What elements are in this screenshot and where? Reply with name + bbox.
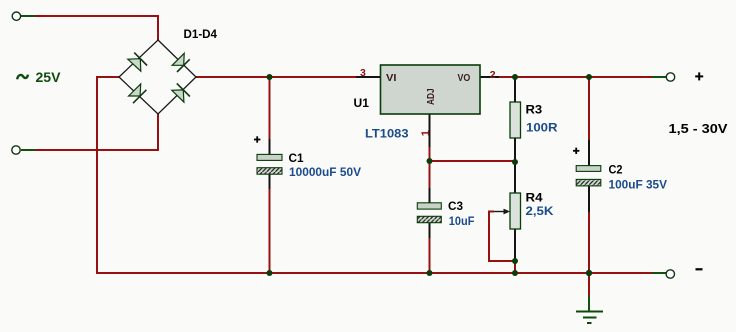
wire: green lead to positive output terminal	[652, 76, 666, 78]
wire: negative rail from bridge left corner down and along bottom	[97, 77, 652, 273]
wire: C1 bottom pin lead	[269, 174, 271, 189]
capacitor C1 body	[257, 154, 282, 174]
C2 polarity plus	[573, 148, 579, 154]
svg-text:D1-D4: D1-D4	[184, 27, 218, 41]
svg-text:C2: C2	[609, 162, 623, 176]
svg-text:100R: 100R	[526, 121, 558, 135]
wire: R4 wiper wire	[489, 212, 515, 262]
capacitor C3 body	[417, 203, 441, 223]
label output plus	[695, 72, 703, 80]
terminal: AC input top	[12, 12, 20, 20]
wire: R3 top pin lead	[514, 77, 516, 102]
R4 wiper arrow	[494, 209, 510, 215]
capacitor C2 body	[576, 166, 601, 186]
op-amp/regulator U1 body	[381, 65, 481, 114]
svg-text:VO: VO	[458, 73, 471, 84]
junction: ADJ node	[427, 158, 433, 164]
wire: R4 top pin lead	[514, 162, 516, 193]
svg-text:C1: C1	[289, 151, 304, 165]
junction: bottom rail at C3	[427, 270, 433, 276]
wire: C1 top pin lead	[269, 139, 271, 155]
wire: green lead to negative output terminal	[652, 272, 666, 274]
wire: C3 branch lower	[429, 238, 431, 273]
potentiometer R4 body	[510, 193, 521, 229]
wire: top rail from VO to positive output	[499, 76, 652, 78]
junction: bottom rail at C1	[267, 270, 273, 276]
wire: top rail from bridge right corner to U1 VI	[196, 76, 356, 78]
wire: R4 bottom pin lead	[514, 229, 516, 261]
wire: C3 top pin lead	[429, 188, 431, 203]
wire: ADJ to node	[429, 147, 431, 161]
terminal: output positive	[666, 73, 674, 81]
wire: AC bottom from terminal to bridge bottom corner	[35, 114, 158, 150]
diode bridge frame D1-D4	[119, 40, 196, 114]
resistor R3 body	[510, 102, 521, 138]
diode D1 (upper-left, anode left corner, cathode top corner)	[128, 53, 147, 72]
terminal: AC input bottom	[12, 146, 20, 154]
svg-text:2,5K: 2,5K	[526, 204, 554, 218]
wire: C1 branch upper	[269, 77, 271, 139]
svg-text:U1: U1	[354, 96, 370, 110]
junction: VO node at R3	[512, 74, 518, 80]
junction: R4 wiper tie	[512, 258, 518, 264]
wire: AC bottom lead (green) from input terminal	[21, 149, 35, 151]
wire: R4 bottom to bottom rail	[514, 261, 516, 273]
wire: C3 bottom pin lead	[429, 223, 431, 238]
wire: C2 branch lower	[588, 212, 590, 273]
junction: top rail at C2	[586, 74, 592, 80]
wire: C1 branch lower	[269, 189, 271, 273]
svg-text:1: 1	[420, 130, 432, 136]
svg-text:25V: 25V	[36, 69, 62, 85]
svg-text:C3: C3	[448, 199, 463, 213]
junction: top rail at C1	[267, 74, 273, 80]
diode D4 (lower-right, anode bottom corner, cathode right corner)	[172, 83, 190, 102]
svg-text:3: 3	[360, 67, 366, 79]
terminal: output negative	[666, 270, 674, 278]
svg-text:LT1083: LT1083	[365, 127, 409, 141]
wire: C2 top pin lead	[588, 140, 590, 166]
svg-text:10000uF 50V: 10000uF 50V	[289, 165, 361, 179]
wire: AC top lead (green) from input terminal	[21, 15, 35, 17]
svg-text:100uF 35V: 100uF 35V	[609, 178, 668, 192]
wire: VO pin lead (pin 2)	[480, 76, 499, 78]
wire: AC top from terminal to bridge top corner	[35, 16, 158, 40]
svg-text:1,5 - 30V: 1,5 - 30V	[669, 121, 728, 136]
wire: C2 branch upper	[588, 77, 590, 140]
junction: divider node R3/R4	[512, 159, 518, 165]
label output minus	[696, 268, 703, 270]
svg-text:R3: R3	[526, 103, 543, 117]
ground	[576, 312, 603, 324]
svg-text:10uF: 10uF	[449, 214, 475, 228]
junction: bottom rail at C2/ground	[586, 270, 592, 276]
wire: C2 bottom pin lead	[588, 186, 590, 212]
wire: node to C3	[429, 161, 431, 188]
svg-text:ADJ: ADJ	[426, 88, 437, 105]
wire: ground stem	[588, 273, 590, 296]
wire: ground stem green	[588, 296, 590, 311]
wire: U1 ADJ pin lead (pin 1)	[429, 114, 431, 147]
C1 polarity plus	[254, 136, 260, 142]
diode D2 (upper-right, anode top corner, cathode right corner)	[172, 53, 190, 72]
wire: R3 bottom pin lead	[514, 138, 516, 162]
wire: VI pin lead (pin 3)	[356, 76, 381, 78]
label ~ 25V (AC input)	[17, 75, 28, 80]
wire: ADJ node to divider node	[430, 160, 516, 162]
svg-text:VI: VI	[386, 73, 397, 84]
diode D3 (lower-left, anode left corner, cathode bottom corner)	[129, 84, 147, 103]
svg-text:2: 2	[490, 69, 496, 81]
junction: bottom rail at R4	[512, 270, 518, 276]
svg-text:R4: R4	[526, 190, 543, 204]
